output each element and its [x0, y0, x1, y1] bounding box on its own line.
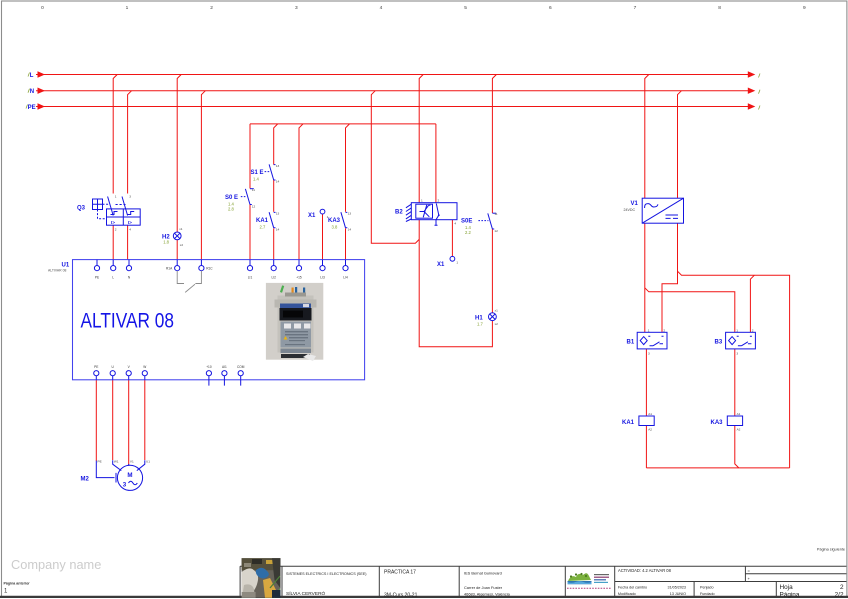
wire KA1 contact to LI2	[273, 228, 275, 259]
pushbutton S1	[265, 164, 276, 180]
svg-text:Fundado: Fundado	[700, 592, 715, 596]
svg-text:1.8: 1.8	[163, 240, 169, 245]
wire L to S0E contact	[492, 75, 496, 214]
svg-text:2: 2	[663, 329, 665, 333]
svg-text:2.7: 2.7	[260, 225, 266, 230]
drive U1 bottom terminals	[94, 371, 244, 386]
contact KA1	[269, 212, 274, 228]
svg-text:W: W	[143, 365, 146, 369]
svg-text:PRACTICA 17: PRACTICA 17	[384, 570, 416, 576]
svg-text:3.8: 3.8	[332, 225, 338, 230]
power supply V1	[642, 198, 683, 223]
svg-text:4: 4	[454, 222, 456, 226]
breaker Q3 pin numbers	[115, 195, 131, 232]
svg-text:+10: +10	[206, 365, 212, 369]
wire B3 pin3 to coil KA3	[734, 349, 736, 416]
svg-text:12: 12	[252, 205, 256, 209]
svg-text:KA3: KA3	[711, 420, 724, 426]
lamp H2 pin numbers	[179, 227, 183, 247]
svg-text:A2: A2	[648, 428, 652, 432]
wire V1 minus to B1 pin1	[644, 223, 646, 332]
svg-text:14: 14	[276, 180, 280, 184]
svg-text:SISTEMES ELECTRICS I ELECTRONI: SISTEMES ELECTRICS I ELECTRONICS (SEE)	[286, 572, 367, 576]
wire U1 V to motor V1	[128, 380, 130, 465]
svg-text:9: 9	[803, 5, 806, 11]
svg-text:1: 1	[456, 261, 458, 265]
junction tick B3 pin2 branch	[750, 275, 754, 332]
svg-text:3: 3	[123, 482, 127, 489]
motor M2 wire tags	[98, 459, 151, 463]
svg-text:U1: U1	[146, 459, 150, 463]
svg-text:LI1: LI1	[248, 276, 253, 280]
pushbutton S1 pin numbers	[276, 164, 280, 184]
svg-text:ALTIVAR 08: ALTIVAR 08	[48, 269, 66, 273]
pushbutton S0 refs	[228, 201, 234, 211]
svg-text:Fecha del cambio: Fecha del cambio	[618, 585, 647, 589]
svg-text:L: L	[112, 276, 114, 280]
sensor B2 pin numbers	[421, 199, 456, 226]
svg-text:S1 E: S1 E	[251, 170, 264, 176]
svg-text:X1: X1	[308, 213, 316, 219]
wire PE bus	[36, 106, 748, 108]
svg-text:2: 2	[115, 228, 117, 232]
svg-text:7: 7	[634, 5, 637, 11]
relay contact R1A R1C internal	[177, 271, 201, 293]
svg-text:I>: I>	[111, 220, 115, 225]
junction tick plus rail	[678, 271, 790, 468]
svg-text:L: L	[30, 73, 34, 79]
drive U1 photo	[266, 283, 323, 361]
node L right arrow	[748, 71, 756, 77]
svg-text:Penjado: Penjado	[700, 585, 714, 589]
wire N to Q3 pole2	[128, 91, 132, 194]
wire U1 PE to motor	[95, 380, 97, 461]
pushbutton S0E refs	[465, 225, 471, 235]
wire B2 right pin to X1 plug	[451, 220, 453, 257]
svg-text:3: 3	[295, 5, 298, 11]
svg-text:3: 3	[736, 352, 738, 356]
svg-text:+15: +15	[296, 276, 302, 280]
junction tick S1 branch	[274, 124, 278, 165]
svg-text:PE: PE	[94, 365, 98, 369]
svg-text:13: 13	[276, 212, 280, 216]
wire coil KA1 to 0V rail	[645, 426, 647, 468]
svg-text:B3: B3	[715, 340, 723, 346]
motor M2	[96, 460, 145, 490]
pushbutton S0E pin numbers	[494, 212, 498, 233]
svg-text:KA1: KA1	[256, 218, 269, 224]
wire X1 plug to LI3	[322, 214, 324, 260]
sensor B3 pin numbers	[736, 329, 754, 356]
svg-text:4: 4	[380, 5, 383, 11]
drive U1 top terminal labels	[95, 276, 348, 280]
wire L to Q3 pole1	[113, 75, 117, 194]
svg-text:B2: B2	[395, 210, 403, 216]
wire rail to S0 to LI1	[249, 124, 251, 260]
title block bottom border	[0, 596, 848, 598]
svg-text:14: 14	[348, 228, 352, 232]
svg-text:M2: M2	[81, 477, 90, 483]
svg-text:M: M	[127, 472, 132, 479]
column ruler numbers	[41, 5, 806, 11]
svg-text:COM: COM	[237, 365, 245, 369]
svg-text:I>: I>	[128, 220, 132, 225]
wire Q3 pole2 to U1 terminal N	[127, 225, 129, 259]
contact KA1 pin numbers	[276, 212, 280, 232]
sensor B1	[637, 332, 667, 349]
svg-text:11: 11	[494, 212, 497, 216]
svg-text:x1: x1	[179, 227, 183, 231]
svg-text:A2: A2	[737, 428, 741, 432]
node PE right arrow	[748, 103, 756, 109]
svg-text:13: 13	[276, 164, 280, 168]
lamp H2	[173, 232, 181, 240]
svg-text:ALTIVAR 08: ALTIVAR 08	[81, 309, 175, 333]
drive U1 bottom terminal labels	[94, 365, 245, 369]
svg-text:x1: x1	[495, 309, 499, 313]
terminal X1 plug a	[320, 209, 325, 214]
svg-text:PE: PE	[95, 276, 99, 280]
svg-text:S0E: S0E	[461, 219, 472, 225]
wire KA3 contact to LI4	[345, 228, 347, 259]
svg-text:8: 8	[718, 5, 721, 11]
svg-text:Página: Página	[780, 591, 800, 598]
wire B2 bottom to H1 loop	[419, 220, 492, 347]
wire N bus	[36, 90, 748, 92]
junction tick +15 branch	[299, 124, 303, 260]
svg-text:1.7: 1.7	[477, 322, 483, 327]
svg-text:14: 14	[276, 228, 280, 232]
svg-text:13 JUNIO: 13 JUNIO	[670, 592, 686, 596]
wire L to B2 left pin	[419, 75, 423, 203]
svg-text:PE: PE	[28, 105, 36, 111]
pushbutton S0 NC	[241, 189, 254, 205]
svg-text:PE: PE	[98, 459, 102, 463]
lamp H1	[489, 313, 497, 321]
contact KA3	[341, 212, 346, 228]
svg-text:3: 3	[129, 195, 131, 199]
wire N branch to B2 net	[371, 91, 419, 244]
title block grid	[240, 566, 846, 597]
svg-text:B1: B1	[627, 340, 635, 346]
svg-text:R1C: R1C	[206, 267, 213, 271]
svg-text:LI3: LI3	[320, 276, 325, 280]
contact KA3 pin numbers	[348, 212, 352, 232]
wire +15 control rail	[250, 123, 436, 125]
svg-text:12: 12	[494, 229, 498, 233]
svg-text:ACTIVIDAD: 4.2 ALTIVAR 08: ACTIVIDAD: 4.2 ALTIVAR 08	[618, 568, 672, 573]
svg-text:2: 2	[438, 199, 440, 203]
svg-text:W1: W1	[114, 459, 119, 463]
svg-text:KA1: KA1	[622, 420, 635, 426]
title block school logo	[567, 573, 611, 588]
svg-text:AI1: AI1	[222, 365, 227, 369]
sensor B1 pin numbers	[648, 329, 666, 356]
svg-text:2.8: 2.8	[228, 207, 234, 212]
svg-text:LI2: LI2	[271, 276, 276, 280]
svg-text:A1: A1	[648, 412, 652, 416]
svg-text:2: 2	[752, 329, 754, 333]
svg-text:1.4: 1.4	[465, 225, 471, 230]
wire N to V1 input	[678, 91, 682, 199]
svg-text:1: 1	[736, 329, 738, 333]
node L left arrow	[38, 71, 46, 77]
svg-text:KA3: KA3	[328, 218, 341, 224]
wire 0V bottom rail	[646, 467, 789, 469]
svg-text:13: 13	[348, 212, 352, 216]
wire L bus	[36, 74, 748, 76]
svg-text:4: 4	[129, 228, 131, 232]
svg-text:6: 6	[549, 5, 552, 11]
svg-text:46683, Algemesí, València: 46683, Algemesí, València	[464, 591, 511, 596]
svg-text:0: 0	[41, 5, 44, 11]
svg-text:Company name: Company name	[11, 557, 101, 572]
coil KA1	[639, 416, 654, 426]
svg-text:SÍLVIA CERVERÓ: SÍLVIA CERVERÓ	[286, 590, 326, 597]
svg-text:IES Bernat Guinovard: IES Bernat Guinovard	[464, 571, 502, 576]
wire V1 plus down	[662, 223, 678, 332]
svg-text:1: 1	[421, 199, 423, 203]
wire L to lamp H2	[177, 75, 181, 233]
svg-text:V1: V1	[631, 201, 639, 207]
svg-text:V1: V1	[130, 459, 134, 463]
svg-text:Carrer de Joan Fuster: Carrer de Joan Fuster	[464, 585, 503, 590]
svg-text:Modificado: Modificado	[618, 592, 636, 596]
svg-text:Hoja: Hoja	[780, 584, 794, 591]
coil KA3 pin numbers	[737, 412, 741, 432]
wire coil KA3 to 0V rail	[735, 426, 739, 468]
drive U1 top terminals	[94, 260, 348, 271]
wire Q3 pole1 to U1 terminal L	[112, 225, 114, 259]
wire B1 pin3 to coil KA1	[645, 349, 647, 416]
svg-text:Página siguiente: Página siguiente	[817, 548, 845, 552]
terminal X1 plug b	[450, 256, 455, 261]
svg-text:1: 1	[126, 5, 129, 11]
svg-text:S0 E: S0 E	[225, 195, 238, 201]
svg-text:R1A: R1A	[166, 267, 173, 271]
pushbutton S0 pin numbers	[252, 188, 256, 209]
wire N to terminal R1C	[201, 91, 205, 260]
svg-text:3M-Curs 20-21: 3M-Curs 20-21	[384, 593, 418, 599]
node PE left arrow	[38, 103, 46, 109]
breaker Q3	[93, 197, 141, 226]
svg-text:X1: X1	[437, 262, 445, 268]
svg-text:2: 2	[210, 5, 213, 11]
svg-text:A1: A1	[737, 412, 741, 416]
wire rail corner down to B2 pin	[435, 124, 437, 203]
svg-text:2: 2	[840, 584, 844, 591]
svg-text:2/2: 2/2	[835, 591, 844, 598]
node N left arrow	[38, 88, 46, 94]
svg-text:x2: x2	[180, 243, 184, 247]
op-amp U1 drive box	[73, 260, 365, 380]
wire U1 U to motor W1	[112, 380, 114, 460]
svg-text:1.4: 1.4	[228, 201, 234, 206]
svg-text:3: 3	[648, 352, 650, 356]
pushbutton S0E NC second	[478, 213, 496, 229]
svg-text:11: 11	[252, 188, 255, 192]
svg-text:1: 1	[648, 329, 650, 333]
svg-text:5: 5	[464, 5, 467, 11]
title block photo logo	[242, 558, 281, 598]
junction tick minus branch to B3 pin1	[645, 288, 735, 333]
svg-text:2.2: 2.2	[465, 230, 471, 235]
wire S1 to KA1 contact	[273, 180, 275, 212]
sensor B2	[406, 203, 457, 226]
coil KA3	[727, 416, 742, 426]
wire H2 to terminal R1A	[176, 240, 178, 260]
wire U1 W to motor U1	[144, 380, 146, 460]
svg-text:24VDC: 24VDC	[624, 208, 636, 212]
lamp H1 pin numbers	[495, 309, 499, 326]
svg-text:1: 1	[115, 195, 117, 199]
coil KA1 pin numbers	[648, 412, 652, 432]
wire L to V1 input	[645, 75, 649, 199]
sensor B3	[726, 332, 756, 349]
svg-text:Q3: Q3	[77, 206, 86, 212]
svg-text:1: 1	[327, 215, 329, 219]
svg-text:Página anterior: Página anterior	[4, 582, 31, 586]
wire S0E to lamp H1	[491, 229, 493, 313]
svg-text:LI4: LI4	[343, 276, 348, 280]
bus ref marks green	[26, 73, 760, 110]
node N right arrow	[748, 88, 756, 94]
svg-text:1.4: 1.4	[253, 177, 259, 182]
svg-text:31/05/2023: 31/05/2023	[668, 585, 686, 589]
svg-text:N: N	[30, 89, 34, 95]
junction tick KA3 branch	[346, 124, 350, 212]
svg-text:x2: x2	[495, 322, 499, 326]
